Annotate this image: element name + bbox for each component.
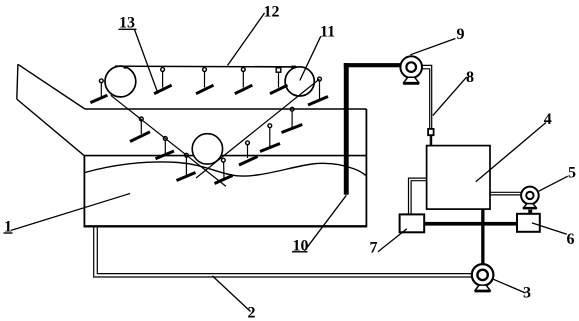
thick pipe box7 to box6 (424, 222, 517, 226)
leader line 13 (135, 30, 159, 94)
leader line 4 (476, 123, 546, 182)
scraper flight (at right pulley) (308, 77, 328, 105)
svg-text:8: 8 (466, 69, 474, 86)
leader line 5 (539, 176, 568, 191)
svg-text:7: 7 (370, 240, 378, 257)
leader line 9 (410, 39, 455, 55)
label 11 (320, 24, 335, 41)
leader line 1 (11, 194, 130, 231)
label 12 (264, 4, 280, 21)
pipe box4 to box7 (thin) (409, 178, 427, 214)
chute (feed hopper) (17, 64, 85, 155)
svg-text:11: 11 (320, 24, 335, 41)
bottom drum (192, 134, 222, 164)
label 1 underline (4, 232, 13, 234)
tank 1 right edge (365, 109, 367, 227)
scraper flight (top run a) (154, 68, 172, 94)
label 4 (544, 111, 552, 128)
svg-text:6: 6 (567, 231, 575, 248)
label 8 (466, 69, 474, 86)
label 6 (567, 231, 575, 248)
leader line 3 (494, 279, 526, 293)
svg-text:2: 2 (248, 305, 256, 321)
label 5 (568, 165, 576, 182)
scraper flight (right incline d) (215, 158, 233, 183)
label 3 (523, 285, 531, 302)
leader line 2 (212, 276, 250, 312)
tank 1 front top edge (84, 155, 366, 157)
svg-text:4: 4 (544, 111, 552, 128)
belt right incline (196, 79, 320, 178)
box 6 (517, 214, 540, 232)
pipe 8 (thin, pump 9 to box 4) (422, 65, 432, 145)
scraper flight (top run d, square roller) (270, 68, 288, 94)
leader line 7 (378, 229, 407, 252)
valve on pipe 8 (428, 129, 434, 135)
label 13 (119, 15, 135, 32)
scraper flight (right incline b) (260, 124, 280, 152)
label 10 underline (292, 251, 308, 253)
scraper flight (at left pulley) (90, 79, 107, 103)
tank 1 back top edge (85, 108, 367, 110)
tank 1 left edge (83, 156, 85, 227)
belt top run 12 (115, 65, 297, 68)
belt left incline (111, 95, 226, 186)
leader line 12 (228, 13, 265, 66)
pulley 13 (left upper drum) (105, 66, 136, 97)
scraper flight (left incline a) (130, 117, 150, 142)
label 7 (370, 240, 378, 257)
pipe 2 (thin, tank bottom to pump 3) (94, 228, 472, 278)
box 4 (treatment tank) (427, 146, 490, 210)
leader line 11 (300, 36, 321, 80)
scraper flight (top run b) (196, 68, 214, 94)
svg-text:9: 9 (457, 26, 465, 43)
label 9 (457, 26, 465, 43)
scraper flight (left incline c) (177, 153, 196, 180)
belt lug right (291, 66, 296, 69)
leader line 8 (433, 77, 467, 116)
pump 9 (400, 56, 422, 83)
tank 1 bottom edge (84, 225, 367, 227)
leader line 6 (532, 223, 567, 234)
label 1 (4, 218, 12, 235)
thick vertical pipe box4 to pump3 (481, 209, 484, 264)
scraper flight (top run c) (235, 68, 253, 94)
suction pipe 10 (thick vertical) (344, 63, 349, 195)
thick pipe elbow to pump 9 (344, 63, 401, 67)
scraper flight (right incline c) (239, 141, 258, 165)
leader line 10 (305, 195, 347, 251)
label 13 underline (119, 28, 137, 30)
svg-text:12: 12 (264, 4, 280, 21)
label 2 (248, 305, 256, 321)
svg-text:3: 3 (523, 285, 531, 302)
pipe box4 to pump5 (thin) (490, 192, 521, 195)
svg-text:5: 5 (568, 165, 576, 182)
box 7 (400, 214, 425, 232)
belt lug left (124, 66, 128, 69)
pulley 11 (right upper drum) (285, 67, 314, 96)
scraper flight (right incline a) (282, 107, 303, 132)
water line (wavy) (85, 162, 366, 176)
label 10 (293, 238, 309, 255)
scraper flight (left incline b) (156, 137, 175, 159)
pump 3 (472, 264, 494, 291)
pump 5 (521, 187, 539, 214)
